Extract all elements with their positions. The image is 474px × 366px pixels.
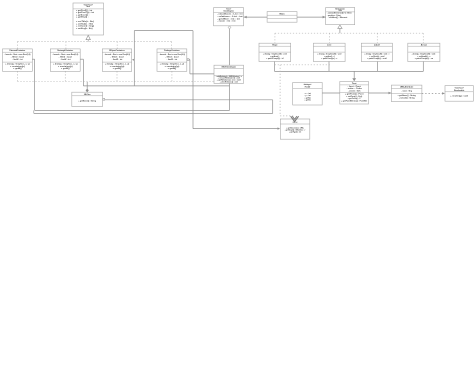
svg-text:UMLRelationDiagram: UMLRelationDiagram xyxy=(222,65,237,68)
svg-text:Renderable: Renderable xyxy=(454,90,465,92)
svg-text:+ paintComp(c) : v: + paintComp(c) : v xyxy=(321,57,338,60)
svg-text:+ render(g) : void: + render(g) : void xyxy=(450,96,469,98)
svg-text:- lineW : int: - lineW : int xyxy=(167,58,178,61)
svg-text:DiamondContainer: DiamondContainer xyxy=(10,49,26,52)
svg-text:- stroke : Strk: - stroke : Strk xyxy=(348,89,361,92)
svg-text:UMLAttribute: UMLAttribute xyxy=(400,86,414,89)
svg-text:+ paintComp(c) : vo: + paintComp(c) : vo xyxy=(415,57,434,60)
svg-text:- lineW : int: - lineW : int xyxy=(60,58,71,61)
svg-text:RectangleContainer: RectangleContainer xyxy=(57,49,73,52)
svg-text:PackageContainer: PackageContainer xyxy=(164,49,180,52)
svg-text:- lineW : int: - lineW : int xyxy=(112,58,123,61)
svg-text:Text: Text xyxy=(352,82,357,85)
svg-text:+ getB(): + getB() xyxy=(113,67,122,70)
svg-text:+ getFontMetrics() : FontMet: + getFontMetrics() : FontMet xyxy=(341,99,367,102)
svg-text:+ getB(): + getB() xyxy=(61,67,70,70)
svg-text:- zoom : int : int: - zoom : int : int xyxy=(217,20,236,23)
svg-text:+ paintComp(c) : void: + paintComp(c) : void xyxy=(367,57,387,60)
svg-text:Arrow: Arrow xyxy=(421,43,428,46)
svg-text:- lineW : int: - lineW : int xyxy=(12,58,23,61)
svg-text:+ setKey(k : Str): + setKey(k : Str) xyxy=(76,27,93,30)
svg-text:ClassDiagram: ClassDiagram xyxy=(223,11,233,13)
svg-text:+ clearRelations() : void: + clearRelations() : void xyxy=(220,80,239,83)
svg-text:+ getY(): + getY() xyxy=(304,99,310,102)
svg-text:Main: Main xyxy=(280,13,286,15)
svg-text:+ getKey() :: + getKey() : xyxy=(76,16,89,19)
svg-text:Point2D: Point2D xyxy=(305,86,311,89)
svg-text:EllipseContainer: EllipseContainer xyxy=(109,49,124,52)
svg-text:Item: Item xyxy=(87,5,91,8)
svg-text:- children[] : Element: - children[] : Element xyxy=(328,16,348,19)
svg-text:- name : Strg: - name : Strg xyxy=(401,89,412,92)
svg-text:+ getB(): + getB() xyxy=(13,67,22,70)
svg-text:+ getB(): + getB() xyxy=(168,67,177,70)
svg-text:UMLRel: UMLRel xyxy=(293,122,298,124)
svg-text:+ toCode() : String: + toCode() : String xyxy=(399,96,416,99)
svg-text:+ getType() : int: + getType() : int xyxy=(289,131,301,134)
svg-text:+ paintComp(c) : id: + paintComp(c) : id xyxy=(266,57,284,60)
svg-text:+ getName() : String: + getName() : String xyxy=(78,100,96,103)
